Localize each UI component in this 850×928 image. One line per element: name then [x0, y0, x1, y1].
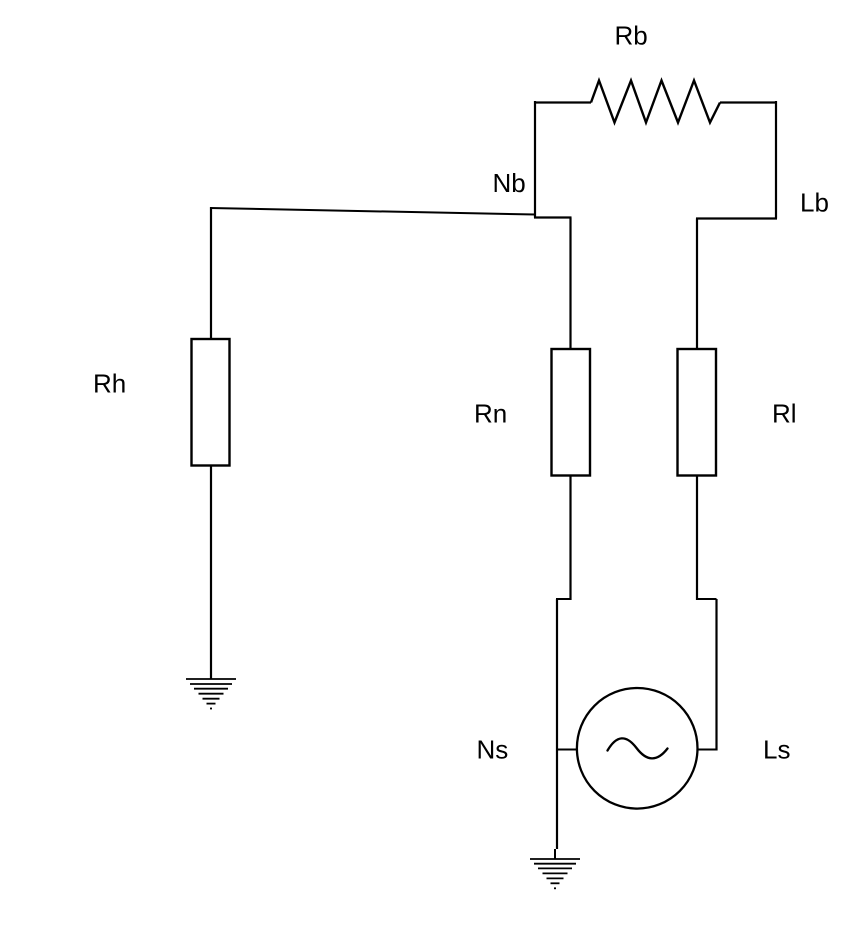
wire step left (Rn branch jog): [556, 598, 572, 600]
wire step right (Rl branch jog): [696, 598, 717, 600]
ac source circle: [577, 688, 698, 809]
wire Rh top lead: [210, 207, 212, 339]
svg-text:Lb: Lb: [800, 188, 829, 218]
wire Ns vertical (jog down through node Ns to ground): [556, 599, 558, 849]
resistor Rn: [552, 349, 591, 476]
resistor Rl: [678, 349, 717, 476]
svg-text:Rl: Rl: [772, 399, 797, 429]
wire Lb vertical (Rb right down to node Lb): [775, 101, 777, 219]
wire Rb right lead: [720, 101, 776, 103]
wire Rl bottom lead: [696, 476, 698, 601]
ground (bottom, below Ns): [530, 859, 580, 888]
svg-text:Ns: Ns: [477, 735, 509, 765]
wire Ns to source: [556, 749, 577, 751]
svg-text:Nb: Nb: [493, 168, 526, 198]
svg-text:Rn: Rn: [474, 399, 507, 429]
ac source sine wave: [608, 738, 668, 758]
wire slanted from Rh top to node Nb: [210, 208, 535, 215]
wire Rn top lead: [569, 218, 571, 350]
resistor Rb: [591, 81, 720, 123]
wire Ls vertical (jog down to node Ls): [715, 599, 717, 751]
ground (left, below Rh): [186, 679, 236, 709]
wire Lb horizontal stub: [696, 217, 777, 219]
wire Rb left lead: [535, 101, 591, 103]
wire Rl top lead: [696, 219, 698, 350]
svg-text:Rb: Rb: [615, 21, 648, 51]
wire Nb vertical (node Nb to Rb left): [534, 101, 536, 218]
ground (bottom, below Ns) stub: [554, 849, 556, 859]
svg-text:Rh: Rh: [93, 369, 126, 399]
resistor Rh: [192, 339, 230, 466]
wire Nb horizontal stub: [534, 216, 572, 218]
svg-text:Ls: Ls: [763, 735, 790, 765]
wire source to Ls corner: [698, 749, 718, 751]
wire Rn bottom lead: [569, 476, 571, 601]
wire Rh bottom lead: [210, 466, 212, 680]
